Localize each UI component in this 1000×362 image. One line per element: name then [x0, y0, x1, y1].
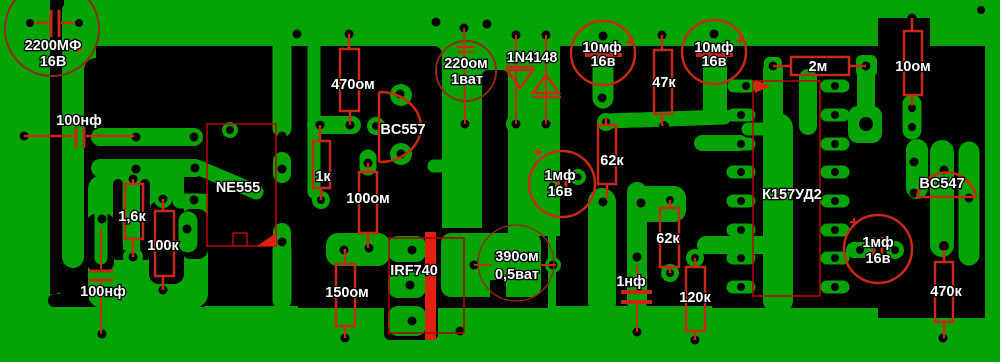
node: NE555 left pad: [183, 225, 192, 234]
pad: IC right pin 12: [827, 224, 843, 237]
node: BC547 right: [965, 194, 974, 203]
svg-text:470ом: 470ом: [331, 77, 375, 93]
node: 1.6k top: [129, 175, 138, 184]
diode D1 symbol: [506, 67, 534, 88]
wire: top-left finger between slots: [62, 0, 84, 268]
svg-text:1к: 1к: [315, 169, 331, 185]
wire: 390om green field: [441, 233, 541, 297]
node: diode1 top: [512, 31, 521, 40]
wire: IC centre column: [763, 128, 793, 300]
etched region: 150om lower lip: [298, 232, 434, 308]
node: 2200mf pad B: [75, 19, 83, 27]
pad: IC left pin 5: [733, 224, 749, 237]
pad: IC right pin 11: [827, 195, 843, 208]
svg-text:1нф: 1нф: [616, 274, 646, 290]
node: IC L4: [737, 197, 745, 205]
node: 2m right: [862, 62, 871, 71]
pad: BC557 bottom: [390, 143, 412, 165]
svg-text:1мф: 1мф: [862, 235, 894, 251]
node: 1.6k bottom: [129, 253, 138, 262]
resistor 62k-2 body: [660, 208, 679, 267]
node: NE555 internal: [226, 126, 234, 134]
pad: 1nf top pad: [629, 250, 646, 264]
node: IRF pin1: [408, 246, 417, 255]
pad: IC left pin 1: [733, 109, 749, 122]
etched slot: above right bar: [184, 173, 208, 194]
node: 150om bottom: [341, 334, 350, 343]
node: diode2 top: [542, 31, 551, 40]
wire: column to bottom band: [273, 250, 292, 300]
node: 390om left: [470, 261, 479, 270]
capacitor 1mf-1 circle: [529, 151, 595, 217]
svg-text:2200МФ: 2200МФ: [25, 38, 82, 54]
svg-text:BC557: BC557: [380, 122, 425, 138]
wire: diode green column: [508, 80, 560, 236]
svg-text:150ом: 150ом: [325, 285, 369, 301]
node: 62k2 bottom: [666, 269, 674, 277]
node: IC L3: [737, 168, 745, 176]
etched region: middle top block 10mf 47k: [560, 46, 752, 206]
wire: 100nf finger: [95, 214, 108, 258]
etched slot: right of 1.6k finger: [140, 179, 150, 259]
resistor 150om body: [336, 264, 355, 326]
svg-text:10ом: 10ом: [895, 59, 931, 75]
node: IC L6: [737, 254, 745, 262]
node: pad top band 3: [483, 20, 492, 29]
etched region: notch under 390om field: [490, 280, 506, 300]
node: 120k top: [691, 254, 699, 262]
etched region: IRF740 column: [384, 228, 438, 340]
resistor 47k leads: [661, 35, 664, 50]
node: IC L5: [737, 226, 745, 234]
resistor 47k body: [654, 50, 672, 114]
resistor 120k leads: [694, 258, 697, 267]
node: bar pad right: [190, 196, 199, 205]
resistor 100k body: [155, 211, 174, 276]
pad: 47k top: [653, 26, 671, 44]
wire: trace 62k1 to 47k to 10mf2 column: [608, 117, 724, 121]
node: NE555 right pad1: [278, 132, 287, 141]
node: 47k bottom: [659, 121, 669, 131]
pad: IC left pin 4: [733, 195, 749, 208]
pad: IC right top pad: [827, 80, 843, 93]
pad: IC right pin 10: [827, 166, 843, 179]
resistor 120k body: [686, 267, 705, 331]
pad: 100om top: [360, 158, 377, 167]
etched region: right bottom notch: [930, 290, 985, 318]
svg-text:16в: 16в: [590, 54, 615, 70]
etched slot: left of 1.6k finger: [113, 179, 123, 259]
node: 2m left: [769, 62, 778, 71]
resistor 1.6k leads: [132, 179, 135, 184]
pad: 62k-1 top: [597, 113, 615, 131]
capacitor 1mf-1 plus: [534, 148, 542, 156]
capacitor 100nf2 plates: [89, 270, 113, 273]
capacitor 2200MF circle: [5, 0, 99, 76]
node: 1mf2 left: [856, 246, 864, 254]
pad: IC left pin 7: [733, 281, 749, 294]
wire: IRF740 pad 2: [388, 270, 426, 298]
capacitor 10mf-1 circle: [571, 21, 635, 85]
wire: column under 2m body: [799, 78, 817, 126]
node: 10om pad1: [908, 104, 916, 112]
wire: IC top bar: [748, 123, 770, 136]
resistor 220om lead: [464, 28, 465, 124]
node: IC R6: [831, 254, 839, 262]
etched slot: around 100nf finger: [87, 214, 114, 271]
pad: extra pad above IC: [734, 80, 750, 93]
wire: column under 10mf2: [703, 44, 727, 110]
transistor BC547 outline: [917, 172, 977, 197]
node: IC R5: [831, 226, 839, 234]
capacitor 1mf-2 circle: [844, 215, 912, 283]
wire: column from 2m left pad: [763, 70, 783, 122]
node: 100k bottom: [159, 286, 168, 295]
pad: IC right pin 9: [827, 138, 843, 151]
node: IC L2: [737, 140, 745, 148]
IC NE555 outline: [207, 124, 276, 246]
etched region: left bottom band: [48, 294, 208, 307]
etched region: black right of diode column: [558, 85, 602, 206]
diode D2 symbol: [533, 75, 561, 97]
pad: BC557 top: [390, 84, 412, 106]
resistor 390om circle: [478, 225, 554, 301]
wire: bar in 220 zone: [434, 160, 462, 173]
node: IC L1: [737, 111, 745, 119]
capacitor 1nf leads: [636, 264, 638, 290]
pad: IC right pin 14: [827, 281, 843, 294]
IC K157UD2 pin1 triangle: [755, 80, 771, 93]
node: ring left: [98, 215, 107, 224]
svg-text:62к: 62к: [600, 153, 624, 169]
resistor 390om leads: [474, 264, 492, 266]
pad: 1.6k bottom pad blob: [123, 247, 143, 267]
etched region: under top-left finger: [60, 190, 90, 302]
svg-text:1,6к: 1,6к: [118, 209, 146, 225]
svg-text:470к: 470к: [930, 284, 962, 300]
node: 100nf2 bottom: [98, 330, 107, 339]
node: mid pad: [599, 198, 608, 207]
pad: IC left pin 3: [733, 166, 749, 179]
node: NE555 right pad2: [278, 165, 287, 174]
node: 100k top: [159, 195, 168, 204]
node: 220om bottom: [461, 120, 470, 129]
pad: 120k top: [686, 249, 704, 267]
node: 470om bottom: [346, 121, 355, 130]
capacitor 10mf-2 circle: [682, 20, 746, 84]
pad: NE555 right pin pad: [273, 161, 291, 174]
node: 150om top pad: [344, 248, 346, 250]
wire: column under 2m right pad: [857, 70, 875, 112]
node: 470k bottom: [939, 334, 948, 343]
capacitor 10mf-2 plus: [736, 36, 744, 44]
node: 1mf1 right: [575, 174, 582, 181]
resistor 2m body: [791, 57, 849, 75]
etched slot: NE555 left pad pocket: [181, 209, 208, 259]
node: diode1 bottom: [512, 120, 521, 129]
resistor 10om body: [904, 31, 922, 95]
wire: NE555 diagonal trace: [197, 167, 256, 192]
node: 1mf1 left: [549, 183, 556, 190]
resistor 10om leads: [911, 18, 914, 31]
IC NE555 pin1 triangle: [257, 233, 276, 246]
pad: 100k top pad: [154, 190, 172, 208]
node: 10mf1 top: [599, 32, 608, 41]
svg-text:100ом: 100ом: [346, 191, 390, 207]
wire: IC centre horizontal: [706, 236, 770, 254]
svg-text:16В: 16В: [40, 54, 67, 70]
pad: 2m right: [856, 55, 877, 77]
wire: bar left of IC: [702, 135, 740, 151]
resistor 1.6k body: [125, 184, 143, 239]
capacitor 1mf-1 plates: [557, 172, 560, 196]
pad: 390om right pad: [545, 257, 561, 273]
svg-text:1мф: 1мф: [544, 168, 576, 184]
capacitor 100nf2 leads: [100, 228, 102, 269]
svg-text:К157УД2: К157УД2: [762, 187, 822, 203]
pad: IC left pin 2: [733, 138, 749, 151]
pad: 2m left: [764, 57, 782, 76]
node: pad top band 2: [293, 30, 302, 39]
node: 100nf left: [20, 132, 29, 141]
wire: 1k feed column: [308, 44, 321, 192]
svg-text:NE555: NE555: [216, 180, 260, 196]
pad: 62k-2 bottom: [661, 264, 679, 282]
node: diode2 bottom: [542, 120, 551, 129]
etched slot: 100k pocket: [149, 201, 184, 284]
node: BC547 left2: [910, 189, 919, 198]
capacitor 100nf plates: [75, 127, 78, 148]
node: 1nf top: [633, 253, 642, 262]
pad: NE555 right pin pad 2: [273, 232, 291, 250]
node: 10om pad2: [908, 123, 916, 131]
node: bar1 hole 1: [132, 133, 141, 142]
node: IC extra pad: [742, 82, 750, 90]
svg-text:100нф: 100нф: [80, 284, 126, 300]
node: 10mf1 col: [598, 94, 607, 103]
wire: BC547 left bar: [906, 150, 928, 188]
node: 120k bottom: [691, 336, 700, 345]
IC K157UD2 outline: [753, 81, 820, 296]
resistor 100k leads: [162, 199, 165, 211]
resistor 220om end marks: [456, 46, 475, 48]
node: 470om top: [345, 30, 354, 39]
capacitor 2200MF plus: [75, 46, 83, 54]
node: 62k2 top: [666, 196, 674, 204]
node: IC R1: [831, 111, 839, 119]
pad: 1mf2 right: [886, 241, 904, 259]
pad: 62k-2 top: [661, 191, 679, 209]
wire: BC547 right column: [959, 152, 980, 255]
svg-text:62к: 62к: [656, 231, 680, 247]
svg-text:16в: 16в: [547, 184, 572, 200]
etched region: left vertical slot: [50, 0, 64, 294]
resistor 62k-1 leads: [605, 118, 608, 125]
svg-text:120к: 120к: [679, 290, 711, 306]
svg-text:1ват: 1ват: [451, 72, 483, 88]
node: BC557 e: [396, 90, 405, 99]
wire: bar2 to NE555 pin: [100, 159, 195, 177]
transistor BC557 outline: [379, 92, 421, 162]
node: 150om top: [343, 248, 345, 250]
node: BC547 mid: [940, 166, 949, 175]
wire: NE555 right column top: [273, 42, 292, 128]
wire: column under 62k1: [588, 202, 616, 302]
pad: 1mf2 left: [854, 242, 866, 258]
wire: bar 1k top: [316, 116, 352, 134]
node: 100om bottom: [365, 244, 374, 253]
node: pad top band: [432, 18, 441, 27]
node: IC R2: [831, 140, 839, 148]
svg-text:IRF740: IRF740: [390, 263, 438, 279]
node: BC547 left1: [910, 158, 919, 167]
node: 10mf2 top: [710, 30, 719, 39]
resistor 62k-2 leads: [669, 200, 672, 208]
capacitor 1mf-2 plus: [850, 218, 858, 226]
node: blob big hole: [859, 117, 873, 131]
svg-text:2м: 2м: [809, 59, 828, 75]
transistor IRF740 outline: [389, 238, 464, 333]
transistor IRF740 bar: [425, 232, 436, 340]
resistor 100om leads: [367, 163, 370, 172]
svg-text:0,5ват: 0,5ват: [495, 267, 539, 283]
node: BC557 c: [397, 150, 406, 159]
wire: bar1 to NE555 pin: [100, 128, 194, 146]
pad: IC left pin 6: [733, 252, 749, 265]
resistor 1k body: [313, 141, 330, 188]
pad: diode1 bottom: [506, 114, 526, 134]
node: 10om top: [908, 14, 917, 23]
resistor 62k-1 body: [598, 125, 616, 184]
node: 2200mf pad A: [26, 19, 34, 27]
node: IC R7: [831, 283, 839, 291]
IC NE555 notch: [233, 233, 247, 246]
node: 1k bottom: [317, 196, 325, 204]
resistor 2m leads: [773, 65, 791, 68]
node: 390om right: [549, 261, 558, 270]
wire: BC547 mid column: [930, 152, 954, 245]
etched region: strip between diode column and 220 column: [482, 70, 508, 236]
svg-text:1N4148: 1N4148: [507, 50, 558, 66]
node: 220om top: [460, 24, 469, 33]
node: IC right top: [831, 82, 839, 90]
node: 1k top: [316, 121, 325, 130]
node: below 390om: [456, 327, 465, 336]
node: IRF pin3: [408, 317, 417, 326]
etched region: 390om frame: [434, 228, 548, 308]
node: BC557 b: [372, 122, 380, 130]
capacitor 10mf-1 plus: [626, 38, 634, 46]
pad: 1k bottom: [312, 191, 330, 209]
pad: NE555 left pad: [179, 221, 198, 243]
node: bar1 hole 2: [190, 133, 199, 142]
svg-text:100нф: 100нф: [56, 113, 102, 129]
pad: BC557 middle: [367, 117, 385, 135]
node: NE555 right pad3: [278, 238, 287, 247]
node: 1mf2 right: [891, 246, 899, 254]
svg-text:BC547: BC547: [919, 176, 964, 192]
etched region: middle bottom block: [556, 196, 712, 306]
wire: block under 100om: [326, 233, 390, 266]
node: IC L7: [737, 283, 745, 291]
pad: diode2 bottom: [536, 114, 556, 134]
node: 470k top: [939, 241, 949, 251]
pad: 1mf1 left: [544, 178, 560, 194]
node: green block hole1: [637, 199, 646, 208]
node: bar2 hole 2: [191, 164, 200, 173]
etched region: right big block: [712, 18, 985, 318]
node: 100om top: [364, 159, 373, 168]
node: IRF pin2: [406, 281, 415, 290]
wire: IRF740 pad 3: [388, 306, 426, 336]
node: 1nf bottom: [633, 328, 642, 337]
svg-text:390ом: 390ом: [495, 249, 539, 265]
capacitor 10mf-2 plates: [696, 53, 733, 57]
svg-text:220ом: 220ом: [444, 56, 488, 72]
node: bar2 hole 1: [132, 165, 141, 174]
svg-text:16в: 16в: [865, 251, 890, 267]
node: block pad: [340, 246, 349, 255]
etched slot: below 1.6k finger: [113, 250, 150, 260]
svg-text:47к: 47к: [652, 75, 676, 91]
wire: top bar right of 1.6k: [180, 194, 200, 209]
resistor 220om circle: [436, 41, 496, 101]
wire: IRF740 pad 1: [388, 236, 426, 262]
svg-text:100к: 100к: [147, 238, 179, 254]
pad: 1mf1 right: [570, 169, 586, 185]
resistor 470k leads: [943, 250, 946, 262]
node: IC R3: [831, 168, 839, 176]
resistor 100om body: [359, 172, 377, 233]
node: 47k top: [658, 31, 667, 40]
etched region: big left mega block: [84, 46, 428, 306]
wire: wide blob below: [848, 106, 882, 143]
resistor 1k leads: [319, 125, 322, 141]
capacitor 2200MF plates: [50, 10, 53, 37]
capacitor 2200MF leads: [36, 22, 49, 25]
svg-text:16в: 16в: [701, 54, 726, 70]
wire: column under 10mf1: [593, 44, 614, 98]
diode D2 lead: [545, 35, 547, 124]
resistor 470om leads: [348, 34, 351, 49]
pad: 10om bottom pads: [903, 104, 922, 130]
etched region: strip under 220om: [426, 46, 442, 233]
resistor 470om body: [340, 49, 359, 111]
wire: left copper pour base: [88, 175, 208, 308]
pad: NE555 internal pad: [222, 122, 238, 138]
resistor 150om leads: [344, 249, 347, 264]
node: 62k1 top: [602, 118, 610, 126]
wire: 1.6k finger: [123, 179, 140, 241]
resistor 470k body: [935, 262, 953, 322]
pad: IC right pin 13: [827, 252, 843, 265]
pad: IC right pin 8: [827, 109, 843, 122]
capacitor 1mf-2 plates: [873, 237, 876, 261]
capacitor 10mf-1 plates: [585, 53, 622, 57]
capacitor 100nf leads: [24, 135, 74, 138]
node: IC R4: [831, 197, 839, 205]
node: top right: [977, 6, 985, 14]
wire: green block right middle: [628, 186, 686, 222]
wire: column through 1nf: [627, 192, 647, 302]
diode D1 lead: [515, 35, 517, 124]
capacitor 1nf plates: [621, 290, 652, 294]
